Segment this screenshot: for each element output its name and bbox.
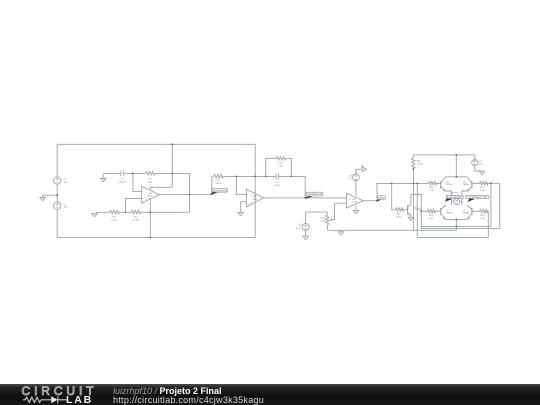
node junction R11 tap bbox=[420, 210, 422, 212]
ground bbox=[338, 232, 343, 235]
wire bottom rail bbox=[57, 237, 255, 239]
wire OA1 output bbox=[159, 194, 212, 196]
ground bbox=[303, 236, 308, 239]
transistor Q4 bottom-left bbox=[440, 208, 442, 215]
svg-text:100 Ω: 100 Ω bbox=[417, 164, 423, 166]
svg-text:TL081: TL081 bbox=[352, 201, 357, 203]
node junction bridge bottom node bbox=[455, 219, 457, 221]
svg-text:1 kΩ: 1 kΩ bbox=[148, 182, 153, 184]
flag tag motor right bbox=[466, 195, 489, 202]
node junction V+ riser at top rail bbox=[171, 143, 173, 145]
svg-text:1 kΩ: 1 kΩ bbox=[429, 218, 434, 220]
resistor R4 feedback loop bbox=[266, 159, 292, 177]
svg-text:http://circuitlab.com/c4cjw3k3: http://circuitlab.com/c4cjw3k35kagu bbox=[113, 395, 264, 405]
svg-text:C1: C1 bbox=[121, 179, 125, 181]
svg-text:POT: POT bbox=[321, 218, 326, 220]
ground bbox=[408, 217, 413, 220]
svg-text:R1: R1 bbox=[113, 217, 117, 219]
wire OA3 V+ bbox=[355, 181, 357, 196]
wire emitter node row bbox=[421, 225, 491, 227]
svg-text:100 nF: 100 nF bbox=[119, 182, 126, 184]
svg-text:1 kΩ: 1 kΩ bbox=[320, 220, 325, 222]
resistor R5 bbox=[214, 174, 224, 178]
capacitor C1 bbox=[121, 171, 124, 177]
svg-text:R5: R5 bbox=[217, 180, 221, 182]
wire tag1 riser bbox=[211, 176, 213, 194]
node junction feedback at OA1 output bbox=[189, 194, 191, 196]
wire comparator node down to R13 loop bbox=[417, 183, 488, 237]
svg-text:R8: R8 bbox=[417, 161, 421, 163]
wire Q1 collector route bbox=[411, 183, 500, 228]
wire Q1 base drop bbox=[392, 183, 396, 209]
wire pot top to V4 bbox=[306, 212, 328, 223]
wire top supply rail bbox=[413, 155, 474, 160]
node junction feedback at OA2 output bbox=[304, 197, 306, 199]
ground bbox=[92, 213, 97, 216]
node junction bridge riser at top rail bbox=[455, 154, 457, 156]
wire OA1 V+ stub to top rail bbox=[150, 144, 172, 190]
svg-text:TL081: TL081 bbox=[252, 199, 257, 201]
svg-text:C2: C2 bbox=[276, 182, 280, 184]
logo squiggle wire bbox=[23, 396, 67, 403]
wire bottom input row bbox=[96, 173, 190, 212]
svg-text:1 kΩ: 1 kΩ bbox=[480, 190, 485, 192]
svg-text:SAIDA_FILTRO: SAIDA_FILTRO bbox=[213, 189, 228, 192]
transistor Q3 top-right bbox=[471, 181, 473, 188]
wire stage2 input row bbox=[212, 175, 305, 177]
svg-text:82 nF: 82 nF bbox=[275, 185, 281, 187]
wire V4 bottom ground bbox=[305, 230, 307, 236]
svg-text:OA1: OA1 bbox=[148, 192, 152, 195]
capacitor C2 bbox=[276, 173, 279, 179]
wire OA3 output bbox=[363, 200, 377, 202]
svg-text:R2: R2 bbox=[134, 217, 138, 219]
svg-text:220 Ω: 220 Ω bbox=[215, 183, 221, 185]
resistor R2 bbox=[131, 210, 141, 214]
wire OA3 minus to pot wiper bbox=[331, 203, 346, 219]
svg-text:2N3904: 2N3904 bbox=[463, 213, 469, 215]
svg-text:12 V: 12 V bbox=[479, 164, 484, 166]
component labels bbox=[64, 161, 486, 230]
node junction R12 wire at inner vertical bbox=[490, 182, 492, 184]
wire OA1 V- stub to bottom rail bbox=[149, 199, 151, 238]
svg-text:R11: R11 bbox=[429, 215, 434, 217]
svg-text:10 kΩ: 10 kΩ bbox=[111, 220, 117, 222]
flag tag stage2 output bbox=[305, 192, 323, 199]
voltage source V3 bbox=[353, 174, 360, 181]
ground bbox=[101, 179, 106, 182]
svg-text:1 kΩ: 1 kΩ bbox=[429, 190, 434, 192]
svg-text:OA2: OA2 bbox=[253, 195, 257, 198]
wire V3 top to flag bbox=[356, 169, 362, 173]
node junction emitter row bbox=[455, 226, 457, 228]
svg-text:COMPARADOR: COMPARADOR bbox=[307, 193, 322, 196]
svg-text:B_MOTOR(-): B_MOTOR(-) bbox=[469, 197, 481, 199]
motor M1 bbox=[454, 199, 460, 205]
svg-text:V1: V1 bbox=[64, 179, 67, 181]
resistor R8 vertical bbox=[412, 155, 414, 230]
resistor R3 bbox=[146, 171, 156, 175]
node junction V+ riser at feedback wire bbox=[171, 173, 173, 175]
wire R9 to Q1 base bbox=[402, 209, 408, 211]
wire feedback drop to output bbox=[304, 176, 306, 198]
wire bridge top node bbox=[446, 155, 467, 177]
ground bbox=[238, 213, 243, 216]
svg-text:5 V: 5 V bbox=[349, 178, 353, 180]
op-amp OA3 bbox=[347, 193, 364, 208]
ground bbox=[353, 210, 358, 213]
node junction R4 loop right bbox=[290, 176, 292, 178]
wire V5 bottom to ground bbox=[475, 166, 482, 172]
svg-text:1 kΩ: 1 kΩ bbox=[278, 166, 283, 168]
wire emitter center drop bbox=[455, 219, 457, 230]
svg-text:1 kΩ: 1 kΩ bbox=[480, 218, 485, 220]
resistor R1 bbox=[110, 210, 120, 214]
wire OA2 minus drop bbox=[236, 176, 246, 194]
voltage source V1 bbox=[54, 177, 61, 184]
svg-text:TL081: TL081 bbox=[148, 196, 153, 198]
footer bar bbox=[0, 384, 540, 405]
wire left rail bbox=[56, 144, 58, 237]
node junction OA1 V- at R2 wire bbox=[149, 211, 151, 213]
svg-text:15 V: 15 V bbox=[64, 207, 69, 209]
node junction right rail at stage2 wire bbox=[254, 176, 256, 178]
flag tag motor left bbox=[445, 195, 464, 202]
svg-text:2N3904: 2N3904 bbox=[463, 184, 469, 186]
svg-text:R4: R4 bbox=[279, 163, 283, 165]
svg-text:V2: V2 bbox=[64, 204, 67, 206]
svg-text:15 V: 15 V bbox=[64, 182, 69, 184]
flag tag stage1 output bbox=[211, 188, 228, 195]
node junction R8 lead bbox=[413, 168, 415, 170]
wire pot bottom long run bbox=[327, 229, 456, 231]
potentiometer POT bbox=[326, 212, 328, 230]
resistor R10 bbox=[428, 181, 437, 185]
ground bbox=[40, 198, 45, 201]
transistor Q5 bottom-right bbox=[471, 208, 473, 215]
node junction bridge top node bbox=[455, 176, 457, 178]
wire OA3 V- ground stub bbox=[355, 206, 357, 210]
svg-text:2.5 V: 2.5 V bbox=[296, 228, 302, 230]
wire Q1 collector to R11 bbox=[421, 210, 427, 212]
node junction Q1 base drop bbox=[391, 183, 393, 185]
resistor R13 bbox=[479, 209, 488, 213]
ground bbox=[479, 171, 484, 174]
wire comparator up leg and drive row bbox=[377, 183, 428, 200]
wire ground tap between sources bbox=[43, 195, 58, 197]
node junction R1-R2 to OA1 plus bbox=[125, 211, 127, 213]
svg-text:A_MOTOR(+): A_MOTOR(+) bbox=[447, 196, 459, 199]
wire ground stub left of C1 bbox=[102, 173, 104, 178]
voltage source V2 bbox=[54, 202, 61, 209]
logo diode bbox=[51, 396, 57, 403]
svg-text:MOTOR: MOTOR bbox=[451, 193, 459, 195]
svg-text:V5: V5 bbox=[479, 161, 482, 163]
node junction R8 at drive wire bbox=[413, 183, 415, 185]
svg-text:V4: V4 bbox=[298, 225, 301, 227]
svg-text:R3: R3 bbox=[149, 179, 153, 181]
flag tag OA3 output bbox=[376, 196, 385, 202]
svg-text:LAB: LAB bbox=[66, 394, 93, 405]
voltage source V5 bbox=[472, 160, 478, 166]
svg-text:10 kΩ: 10 kΩ bbox=[133, 220, 139, 222]
resistor R12 bbox=[479, 181, 488, 185]
node junction R5 to OA2 minus bbox=[236, 176, 238, 178]
voltage source V4 bbox=[302, 223, 309, 230]
wire minus input drop bbox=[133, 173, 142, 191]
svg-text:R12: R12 bbox=[480, 187, 485, 189]
node junction R4 loop left bbox=[265, 176, 267, 178]
svg-text:2N3904: 2N3904 bbox=[446, 184, 452, 186]
resistor R9 bbox=[395, 208, 404, 212]
wire right inner vertical bbox=[490, 183, 492, 226]
wire OA2 output / OA3 input bbox=[264, 197, 347, 199]
svg-text:R10: R10 bbox=[429, 187, 434, 189]
wire right rail bbox=[254, 144, 256, 237]
wire plus input bbox=[125, 199, 141, 213]
wire top rail bbox=[57, 143, 255, 145]
wire stage1 feedback top bbox=[103, 172, 190, 174]
wire ground tap on pot wire bbox=[340, 230, 342, 232]
svg-text:2N3904: 2N3904 bbox=[414, 209, 421, 211]
node junction R13 branch at drive wire bbox=[416, 183, 418, 185]
svg-text:R13: R13 bbox=[480, 215, 485, 217]
svg-text:10 kΩ: 10 kΩ bbox=[396, 216, 402, 218]
node junction sources ground tap bbox=[56, 194, 58, 196]
node flag V3 bbox=[362, 166, 366, 172]
transistor Q1 bbox=[407, 205, 409, 214]
svg-text:OA3: OA3 bbox=[352, 198, 356, 201]
node junction C1-R3 to OA1 minus bbox=[132, 173, 134, 175]
op-amp OA2 bbox=[246, 189, 263, 206]
svg-text:DIR: DIR bbox=[380, 198, 384, 200]
svg-text:R9: R9 bbox=[397, 213, 401, 215]
node junction OA1 V- at bottom rail bbox=[149, 237, 151, 239]
transistor Q2 top-left bbox=[440, 181, 442, 188]
op-amp OA1 bbox=[142, 186, 160, 203]
resistor R11 bbox=[427, 209, 436, 213]
wire OA2 plus to ground bbox=[241, 202, 247, 213]
svg-text:2N3904: 2N3904 bbox=[446, 213, 452, 215]
